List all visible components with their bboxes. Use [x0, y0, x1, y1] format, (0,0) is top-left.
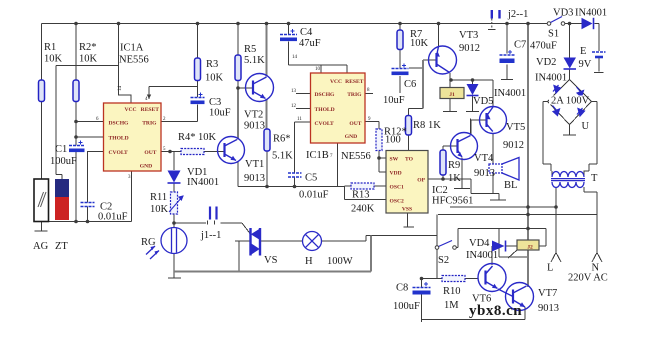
svg-text:10K: 10K: [410, 38, 429, 49]
svg-text:OP: OP: [417, 178, 425, 184]
svg-text:R13: R13: [352, 190, 370, 201]
svg-text:ybx8.cn: ybx8.cn: [469, 303, 522, 319]
svg-text:NE556: NE556: [119, 55, 149, 66]
svg-text:9012: 9012: [503, 140, 524, 151]
svg-text:R1: R1: [44, 42, 56, 53]
svg-text:H: H: [305, 256, 313, 267]
svg-text:C5: C5: [305, 173, 317, 184]
svg-text:9013: 9013: [538, 303, 559, 314]
svg-text:10K: 10K: [205, 73, 224, 84]
svg-text:IC1A: IC1A: [120, 43, 144, 54]
svg-text:12: 12: [291, 104, 297, 109]
svg-text:U: U: [582, 121, 590, 132]
svg-text:DSCHG: DSCHG: [109, 121, 130, 127]
svg-text:IN4001: IN4001: [575, 8, 607, 19]
svg-text:1K: 1K: [448, 173, 461, 184]
svg-text:100: 100: [385, 135, 401, 146]
svg-text:VT4: VT4: [474, 153, 494, 164]
svg-text:1K: 1K: [428, 120, 441, 131]
svg-text:10: 10: [315, 67, 321, 72]
svg-text:IC2: IC2: [432, 185, 448, 196]
svg-text:L: L: [547, 263, 553, 274]
svg-text:VT7: VT7: [538, 288, 557, 299]
svg-text:ZT: ZT: [55, 241, 68, 252]
svg-text:VT1: VT1: [245, 159, 264, 170]
svg-text:VT3: VT3: [459, 30, 478, 41]
svg-text:11: 11: [297, 117, 302, 122]
svg-text:R2*: R2*: [79, 42, 97, 53]
svg-text:10uF: 10uF: [209, 108, 231, 119]
svg-text:C1: C1: [55, 144, 67, 155]
svg-text:240K: 240K: [351, 204, 375, 215]
svg-text:THOLD: THOLD: [109, 136, 129, 142]
svg-text:10K: 10K: [44, 54, 63, 65]
svg-text:THOLD: THOLD: [315, 107, 335, 113]
svg-text:VT5: VT5: [506, 122, 525, 133]
svg-text:47uF: 47uF: [299, 38, 321, 49]
svg-text:S1: S1: [548, 29, 559, 40]
svg-text:TRIG: TRIG: [142, 121, 157, 127]
svg-text:13: 13: [291, 89, 297, 94]
svg-text:RESET: RESET: [141, 107, 160, 113]
svg-text:0.01uF: 0.01uF: [299, 190, 329, 201]
svg-text:VCC: VCC: [124, 107, 136, 113]
svg-text:CVOLT: CVOLT: [109, 150, 129, 156]
svg-text:10K: 10K: [150, 204, 169, 215]
svg-text:9V: 9V: [579, 59, 592, 70]
svg-text:220V AC: 220V AC: [568, 273, 608, 284]
svg-text:C7: C7: [514, 40, 526, 51]
svg-text:C6: C6: [404, 79, 416, 90]
svg-text:VCC: VCC: [330, 79, 342, 85]
svg-text:S2: S2: [438, 255, 449, 266]
svg-text:9013: 9013: [244, 121, 265, 132]
svg-text:IC1B: IC1B: [306, 150, 329, 161]
svg-text:IN4001: IN4001: [535, 73, 567, 84]
svg-text:IN4001: IN4001: [187, 177, 219, 188]
svg-text:0.01uF: 0.01uF: [98, 212, 128, 223]
svg-text:J1: J1: [449, 92, 455, 98]
svg-text:9013: 9013: [244, 173, 265, 184]
svg-text:j1--1: j1--1: [200, 230, 221, 241]
svg-text:9012: 9012: [459, 43, 480, 54]
svg-text:2A 100V: 2A 100V: [551, 96, 590, 107]
svg-text:AG: AG: [33, 241, 49, 252]
svg-text:IN4001: IN4001: [466, 250, 498, 261]
svg-text:TRIG: TRIG: [347, 92, 362, 98]
svg-text:E: E: [580, 46, 586, 57]
svg-text:J2: J2: [527, 245, 533, 251]
svg-text:VS: VS: [264, 255, 278, 266]
svg-text:10K: 10K: [79, 54, 98, 65]
svg-text:10uF: 10uF: [383, 95, 405, 106]
svg-text:R3: R3: [206, 59, 218, 70]
svg-text:NE556: NE556: [341, 151, 371, 162]
svg-text:VD4: VD4: [469, 238, 490, 249]
svg-text:5.1K: 5.1K: [244, 55, 265, 66]
svg-text:DSCHG: DSCHG: [315, 92, 336, 98]
svg-text:RG: RG: [141, 237, 156, 248]
svg-text:100uF: 100uF: [393, 301, 420, 312]
svg-text:9013: 9013: [474, 168, 495, 179]
svg-text:TO: TO: [405, 157, 414, 163]
svg-text:14: 14: [118, 86, 123, 92]
svg-text:OUT: OUT: [349, 121, 361, 127]
svg-text:VD2: VD2: [536, 57, 556, 68]
svg-text:14: 14: [292, 55, 298, 60]
svg-text:GND: GND: [345, 134, 357, 140]
svg-text:R4*: R4*: [178, 132, 196, 143]
svg-text:OSC2: OSC2: [390, 199, 405, 205]
svg-text:OUT: OUT: [144, 150, 156, 156]
svg-text:HFC9561: HFC9561: [432, 196, 473, 207]
svg-text:R11: R11: [150, 192, 167, 203]
svg-text:100W: 100W: [327, 256, 353, 267]
svg-text:VD3: VD3: [553, 8, 573, 19]
svg-text:BL: BL: [504, 180, 517, 191]
svg-text:C4: C4: [300, 27, 313, 38]
svg-text:10K: 10K: [198, 132, 217, 143]
svg-text:1M: 1M: [444, 300, 459, 311]
svg-text:C8: C8: [396, 283, 408, 294]
svg-text:j2--1: j2--1: [507, 9, 528, 20]
svg-text:100uF: 100uF: [50, 156, 77, 167]
svg-text:R8: R8: [413, 120, 425, 131]
svg-text:R5: R5: [244, 44, 256, 55]
svg-text:T: T: [591, 173, 598, 184]
svg-text:R10: R10: [443, 286, 461, 297]
svg-text:OSC1: OSC1: [390, 185, 405, 191]
svg-text:R9: R9: [448, 160, 460, 171]
svg-text:IN4001: IN4001: [494, 88, 526, 99]
svg-text:CVOLT: CVOLT: [315, 121, 335, 127]
svg-text:RESET: RESET: [345, 79, 364, 85]
svg-text:470uF: 470uF: [530, 41, 557, 52]
svg-text:VT2: VT2: [244, 110, 263, 121]
svg-text:5.1K: 5.1K: [272, 151, 293, 162]
svg-text:VSS: VSS: [402, 207, 412, 213]
svg-text:VD5: VD5: [473, 96, 493, 107]
svg-text:C3: C3: [209, 97, 221, 108]
svg-text:VDD: VDD: [390, 171, 402, 177]
svg-text:GND: GND: [140, 164, 152, 170]
svg-text:SW: SW: [390, 157, 399, 163]
svg-text:R6*: R6*: [273, 134, 291, 145]
